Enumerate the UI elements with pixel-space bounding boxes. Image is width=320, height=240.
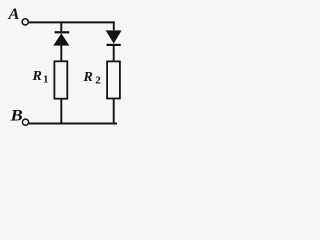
wire R2 to bottom — [113, 99, 115, 124]
resistor R2 box — [107, 61, 120, 98]
diode D2 triangle — [106, 30, 122, 43]
resistor R1 box — [54, 61, 67, 98]
svg-text:A: A — [7, 6, 19, 23]
wire right branch top stub — [113, 21, 115, 30]
wire left branch top stub — [60, 22, 62, 31]
wire R1 to bottom — [60, 99, 62, 124]
wire top horizontal — [29, 21, 115, 23]
terminal B — [22, 119, 28, 125]
svg-text:B: B — [9, 108, 23, 125]
wire D1 to R1 — [60, 45, 62, 62]
wire bottom horizontal — [29, 123, 117, 125]
wire D2 to R2 — [113, 46, 115, 62]
diode D1 cathode bar — [55, 31, 70, 33]
diode D2 cathode bar — [107, 44, 121, 46]
diode D1 triangle — [53, 33, 69, 45]
terminal A — [22, 19, 28, 25]
